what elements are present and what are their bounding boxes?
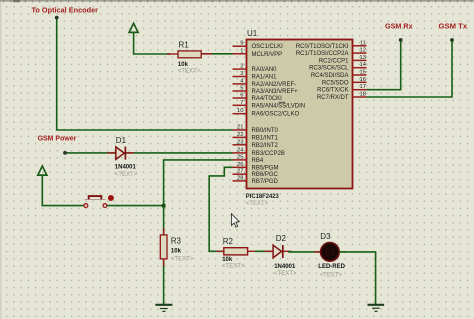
- svg-text:22: 22: [237, 132, 243, 138]
- node dot: GSM Rx wire origin: [399, 38, 403, 42]
- window left edge strip: [0, 0, 1, 319]
- LED D3 LED-RED: [314, 243, 346, 262]
- wire: U1 pin 26 (RB5/PGM) staircase down to R2: [209, 167, 232, 251]
- svg-text:RB5/PGM: RB5/PGM: [252, 165, 279, 171]
- U1 left pin names: [252, 44, 306, 185]
- svg-text:RB1/INT1: RB1/INT1: [252, 135, 279, 141]
- svg-text:9: 9: [240, 41, 243, 47]
- svg-text:R3: R3: [171, 236, 182, 245]
- svg-text:6: 6: [240, 93, 243, 99]
- svg-text:RA0/AN0: RA0/AN0: [252, 67, 278, 73]
- wire: GSM Power through D1 to U1 pin 24 (RB3/CCP2B): [65, 152, 233, 154]
- svg-text:15: 15: [360, 70, 366, 76]
- svg-text:<TEXT>: <TEXT>: [274, 271, 297, 277]
- svg-text:1N4001: 1N4001: [115, 164, 137, 170]
- U1 left pin stubs: [233, 46, 247, 181]
- svg-text:OSC1/CLKI: OSC1/CLKI: [252, 44, 284, 50]
- svg-text:RC5/SDO: RC5/SDO: [322, 80, 349, 86]
- svg-text:28: 28: [237, 175, 243, 181]
- svg-text:GSM Power: GSM Power: [38, 134, 77, 143]
- pushbutton switch: [84, 195, 114, 208]
- svg-text:27: 27: [237, 169, 243, 175]
- svg-text:RB2/INT2: RB2/INT2: [252, 143, 279, 149]
- svg-text:RA2/AN2/VREF-: RA2/AN2/VREF-: [252, 82, 297, 88]
- power terminal arrow (left, feeds switch): [38, 166, 85, 206]
- svg-text:D2: D2: [276, 234, 287, 243]
- svg-text:D1: D1: [116, 136, 127, 145]
- svg-text:1: 1: [240, 48, 243, 54]
- U1 right pin numbers: [360, 40, 367, 97]
- svg-text:D3: D3: [320, 232, 331, 241]
- wire: GSM Tx to U1 pin 18 (RC7/RX/DT): [366, 40, 452, 97]
- power terminal arrow (top, feeds R1): [129, 23, 170, 54]
- svg-text:18: 18: [360, 92, 366, 98]
- node dot: GSM Tx wire origin: [450, 38, 454, 42]
- wire: R3 node up to U1 pin 25 (RB4): [164, 160, 233, 206]
- window top edge bar: [0, 0, 474, 2]
- U1 right pin stubs: [353, 46, 367, 97]
- ground symbol (under R3): [155, 305, 172, 312]
- svg-text:R2: R2: [223, 237, 234, 246]
- svg-text:RB0/INT0: RB0/INT0: [252, 128, 279, 134]
- svg-text:23: 23: [237, 139, 243, 145]
- U1 left pin numbers: [237, 41, 244, 182]
- svg-text:10k: 10k: [171, 249, 182, 255]
- wire: To Optical Encoder to U1 pin 21 (RB0/INT0): [57, 18, 233, 131]
- svg-text:RA6/OSC2/CLKO: RA6/OSC2/CLKO: [252, 112, 300, 118]
- wire: LED D3 to ground: [339, 252, 376, 304]
- svg-text:RB3/CCP2B: RB3/CCP2B: [252, 151, 285, 157]
- resistor R1: [167, 51, 212, 58]
- svg-text:10k: 10k: [178, 62, 189, 68]
- mouse cursor: [231, 214, 239, 228]
- svg-text:17: 17: [360, 84, 366, 90]
- svg-text:RC3/SCK/SCL: RC3/SCK/SCL: [309, 66, 349, 72]
- svg-text:11: 11: [360, 40, 366, 46]
- microcontroller U1 PIC18F2423: [247, 40, 353, 189]
- wire: D2 to LED D3: [288, 251, 321, 253]
- svg-text:RB7/PGD: RB7/PGD: [252, 179, 279, 185]
- U1 right pin names: [296, 44, 349, 101]
- svg-text:7: 7: [240, 100, 243, 106]
- diode D1 1N4001: [107, 147, 134, 160]
- svg-text:RA5/AN4/SS/LVDIN: RA5/AN4/SS/LVDIN: [252, 103, 306, 109]
- svg-text:RA1/AN1: RA1/AN1: [252, 75, 278, 81]
- svg-text:<TEXT>: <TEXT>: [171, 256, 194, 262]
- svg-text:PIC18F2423: PIC18F2423: [246, 193, 280, 200]
- ground symbol (under LED D3): [368, 305, 385, 312]
- svg-text:RC4/SDI/SDA: RC4/SDI/SDA: [311, 73, 349, 79]
- wire: switch right terminal to R3 node: [106, 205, 164, 207]
- wire: GSM Rx to U1 pin 17 (RC6/TX/CK): [366, 40, 400, 90]
- svg-text:14: 14: [360, 62, 367, 68]
- svg-text:RC2/CCP1: RC2/CCP1: [319, 58, 349, 64]
- svg-text:<TEXT>: <TEXT>: [222, 264, 245, 270]
- resistor R3: [160, 228, 167, 266]
- svg-text:3: 3: [240, 71, 243, 77]
- svg-text:24: 24: [237, 147, 244, 153]
- svg-text:10k: 10k: [222, 257, 233, 263]
- svg-text:2: 2: [240, 64, 243, 70]
- svg-text:U1: U1: [247, 29, 258, 38]
- diode D2 1N4001: [265, 245, 292, 258]
- svg-text:10: 10: [237, 108, 243, 114]
- svg-text:RC1/T1OSI/CCP2A: RC1/T1OSI/CCP2A: [296, 51, 349, 57]
- svg-text:GSM Rx: GSM Rx: [385, 21, 413, 30]
- wire: R3 node down to ground: [163, 206, 165, 305]
- svg-text:25: 25: [237, 154, 243, 160]
- wire: R2 to D2: [255, 250, 273, 252]
- svg-text:GSM Tx: GSM Tx: [439, 21, 468, 30]
- resistor R2: [217, 248, 256, 255]
- svg-text:1N4001: 1N4001: [274, 264, 296, 270]
- svg-text:RB4: RB4: [252, 158, 264, 164]
- svg-text:<TEXT>: <TEXT>: [320, 273, 343, 279]
- wire: R1 right lead to U1 pin 1 (MCLR): [201, 53, 233, 55]
- svg-text:MCLR/VPP: MCLR/VPP: [252, 52, 283, 58]
- svg-text:LED-RED: LED-RED: [318, 264, 345, 270]
- svg-text:26: 26: [237, 162, 243, 168]
- svg-text:<TEXT>: <TEXT>: [178, 68, 201, 74]
- svg-text:21: 21: [237, 125, 243, 131]
- svg-text:5: 5: [240, 86, 243, 92]
- node dot: GSM Power wire origin: [63, 151, 67, 155]
- svg-text:13: 13: [360, 55, 366, 61]
- svg-text:12: 12: [360, 48, 366, 54]
- svg-text:<TEXT>: <TEXT>: [246, 201, 269, 207]
- svg-text:RC7/RX/DT: RC7/RX/DT: [317, 95, 349, 101]
- svg-text:<TEXT>: <TEXT>: [115, 172, 138, 178]
- node dot: To Optical Encoder wire origin: [55, 16, 59, 20]
- junction: switch wire meets R3 wire: [162, 204, 166, 208]
- svg-text:R1: R1: [179, 41, 190, 50]
- svg-text:16: 16: [360, 77, 366, 83]
- svg-text:RC6/TX/CK: RC6/TX/CK: [317, 88, 348, 94]
- svg-text:RA4/T0CKI: RA4/T0CKI: [252, 96, 283, 102]
- svg-text:RB6/PGC: RB6/PGC: [252, 172, 279, 178]
- svg-text:RA3/AN3/VREF+: RA3/AN3/VREF+: [252, 89, 299, 95]
- svg-text:RC0/T1OSO/T1CKI: RC0/T1OSO/T1CKI: [296, 44, 349, 50]
- svg-text:To Optical Encoder: To Optical Encoder: [32, 6, 99, 15]
